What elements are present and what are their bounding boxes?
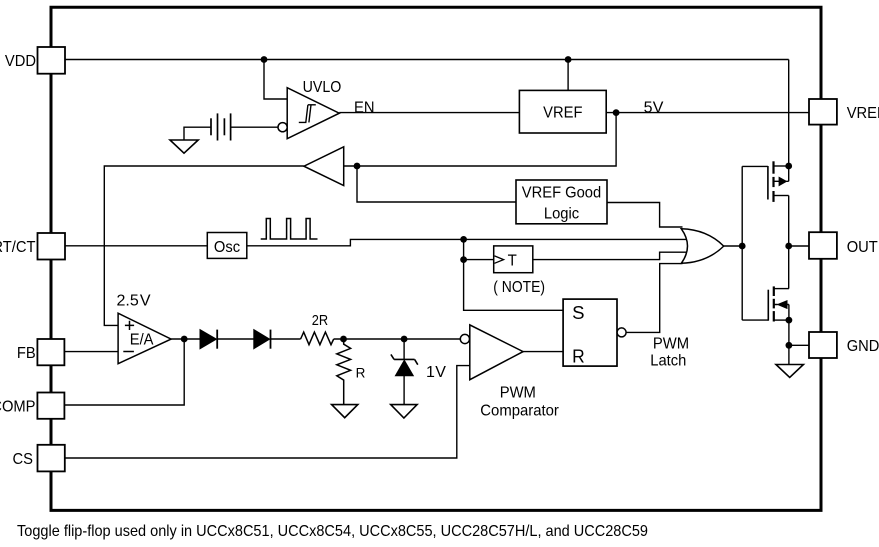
block VREF Good Logic [516, 180, 607, 224]
wire GND to pin [789, 344, 809, 346]
wire Q2 source to GND net [788, 320, 790, 364]
op-amp E/A error amplifier [118, 313, 171, 364]
wire comparator output to R input [523, 351, 563, 353]
node Q2 source junction [786, 317, 793, 324]
svg-text:Logic: Logic [544, 206, 579, 223]
svg-text:UVLO: UVLO [303, 79, 342, 96]
zener diode Z1 (1V clamp) [403, 339, 405, 405]
node T input tap [460, 256, 467, 263]
pin GND [809, 332, 837, 358]
svg-text:COMP: COMP [0, 399, 36, 416]
wire totem midpoint [788, 196, 790, 289]
wire latch output to OR gate [626, 264, 682, 333]
svg-text:V: V [435, 364, 446, 381]
svg-text:Comparator: Comparator [480, 403, 559, 420]
pin COMP [37, 393, 64, 419]
ground G1 under capacitor [170, 140, 198, 153]
wire OR output to gate bus [724, 245, 743, 247]
diode D2 [254, 330, 270, 349]
svg-text:OUT: OUT [847, 239, 878, 256]
clock pulse waveform glyph [261, 219, 318, 240]
node zener junction [401, 336, 408, 343]
svg-text:( NOTE): ( NOTE) [493, 279, 545, 296]
wire Osc clock to OR gate [247, 239, 688, 245]
svg-text:EN: EN [354, 99, 375, 116]
node VDD-VREF junction [565, 56, 572, 63]
node E/A output junction [181, 336, 188, 343]
node buffer input / VREF-good tap [354, 163, 361, 170]
wire CS to PWM comparator [65, 366, 470, 458]
svg-text:V: V [140, 293, 151, 310]
svg-text:GND: GND [847, 338, 879, 355]
flip-flop T [494, 246, 533, 273]
diode D1 [200, 330, 216, 349]
node OR output junction [739, 243, 746, 250]
wire VREF block feed [567, 60, 569, 91]
wire UVLO sense input [264, 60, 287, 100]
block VREF [519, 90, 606, 133]
wire Q2 gate [742, 319, 768, 321]
svg-text:E/A: E/A [130, 331, 154, 348]
gate OR (output logic) [681, 229, 723, 263]
svg-text:PWM: PWM [500, 384, 536, 401]
wire VDD rail top [65, 59, 789, 61]
capacitor C1 plates [211, 113, 231, 140]
wire VDD drop to Q1 drain [788, 60, 790, 182]
resistor R [337, 339, 351, 405]
ground G2 under R [332, 405, 358, 418]
svg-text:VREF Good: VREF Good [522, 185, 601, 202]
svg-text:R: R [356, 365, 366, 380]
transistor Q2 (lower driver) [768, 286, 789, 321]
wire buffer output to E/A + input [104, 166, 304, 325]
transistor Q1 (upper driver) [768, 161, 789, 202]
wire T output to OR gate [533, 252, 688, 259]
wire VREF down to 2.5V buffer input [344, 113, 616, 166]
UVLO inverting input bubble [278, 123, 287, 132]
svg-text:S: S [572, 303, 584, 323]
pin FB [37, 339, 64, 365]
pin VDD [38, 47, 66, 74]
wire Q1 gate [742, 165, 768, 167]
node divider junction [340, 336, 347, 343]
svg-text:Latch: Latch [650, 353, 686, 370]
wire EN from UVLO to VREF [339, 112, 519, 114]
svg-text:Toggle flip-flop used only in: Toggle flip-flop used only in UCCx8C51, … [17, 523, 648, 540]
wire OUT to pin [789, 245, 809, 247]
wire VREF Good Logic to OR gate [607, 203, 683, 228]
wire E/A output to COMP pin [64, 339, 184, 405]
svg-text:2R: 2R [312, 312, 329, 329]
wire D2 to 2R [271, 338, 301, 340]
svg-text:R: R [572, 347, 585, 367]
node VREF output junction [613, 109, 620, 116]
svg-text:FB: FB [17, 345, 36, 362]
resistor 2R [301, 332, 334, 345]
wire E/A output [171, 338, 200, 340]
wire capacitor to UVLO bubble [231, 126, 278, 128]
wire D1 to D2 [217, 338, 254, 340]
svg-text:VDD: VDD [5, 53, 36, 70]
svg-text:2.5: 2.5 [117, 293, 139, 310]
svg-text:1: 1 [426, 364, 435, 381]
wire RT/CT to Osc [65, 245, 207, 247]
wire clock down to S input [464, 239, 563, 310]
svg-text:VREF: VREF [543, 104, 583, 121]
pin RT/CT [38, 233, 66, 260]
wire FB to E/A inverting input [64, 351, 118, 353]
svg-text:V: V [653, 99, 664, 116]
wire 2R to comparator input [334, 338, 461, 340]
ground G3 under zener [391, 405, 417, 418]
wire to T flip-flop input [464, 259, 494, 261]
pin CS [38, 445, 65, 472]
svg-text:CS: CS [13, 451, 34, 468]
op-amp UVLO comparator [287, 88, 339, 139]
E/A minus sign [123, 351, 134, 353]
svg-text:VREF: VREF [847, 105, 879, 122]
node VDD-UVLO junction [261, 56, 268, 63]
UVLO hysteresis glyph [299, 105, 316, 123]
T clock triangle [495, 256, 504, 263]
block Osc [207, 233, 247, 259]
svg-text:RT/CT: RT/CT [0, 239, 36, 256]
ground G4 under Q2 [776, 365, 803, 378]
node clock-T tap [460, 236, 467, 243]
svg-text:T: T [508, 253, 517, 270]
PWM comparator inverting bubble [460, 334, 469, 343]
node GND junction [786, 342, 793, 349]
pin OUT [809, 232, 837, 259]
latch U3 S/R [563, 299, 617, 366]
svg-text:Osc: Osc [214, 239, 240, 256]
svg-text:PWM: PWM [653, 335, 689, 352]
wire gate bus vertical [741, 166, 743, 320]
node Q1 drain junction [785, 163, 792, 170]
node OUT junction [785, 243, 792, 250]
op-amp PWM comparator [470, 325, 523, 380]
E/A plus sign [125, 321, 134, 330]
wire tap to VREF Good Logic [357, 166, 516, 202]
wire capacitor to ground [184, 127, 211, 140]
pin VREF [809, 99, 837, 125]
wire 5V to VREF pin [606, 112, 809, 114]
buffer U2 (2.5V reference buffer, points left) [304, 147, 344, 186]
svg-text:5: 5 [644, 99, 653, 116]
latch output bubble [617, 328, 626, 337]
